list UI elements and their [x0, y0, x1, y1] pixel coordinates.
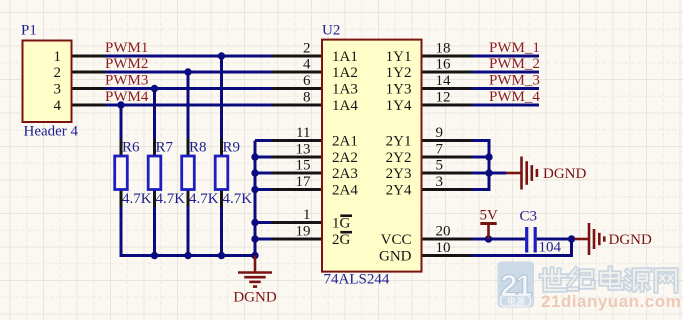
- svg-text:16: 16: [436, 56, 452, 72]
- svg-text:Header 4: Header 4: [24, 124, 79, 140]
- svg-text:1G: 1G: [332, 216, 351, 232]
- svg-text:U2: U2: [322, 23, 340, 39]
- svg-text:PWM_3: PWM_3: [489, 73, 540, 89]
- svg-text:4.7K: 4.7K: [122, 191, 152, 207]
- svg-text:2Y4: 2Y4: [386, 183, 412, 199]
- svg-text:104: 104: [539, 240, 562, 256]
- svg-text:9: 9: [436, 125, 444, 141]
- svg-text:2A2: 2A2: [332, 150, 358, 166]
- svg-text:2A4: 2A4: [332, 183, 358, 199]
- svg-text:PWM2: PWM2: [105, 56, 148, 72]
- svg-text:13: 13: [296, 141, 311, 157]
- svg-text:17: 17: [296, 174, 312, 190]
- svg-text:1Y2: 1Y2: [386, 65, 412, 81]
- svg-text:2G: 2G: [332, 232, 351, 248]
- svg-text:2A3: 2A3: [332, 166, 358, 182]
- svg-text:15: 15: [296, 157, 311, 173]
- svg-text:DGND: DGND: [543, 166, 586, 182]
- svg-text:1A2: 1A2: [332, 65, 358, 81]
- svg-text:R9: R9: [223, 140, 241, 156]
- svg-text:20: 20: [436, 223, 451, 239]
- svg-text:1Y3: 1Y3: [386, 82, 412, 98]
- svg-text:P1: P1: [21, 23, 37, 39]
- svg-text:19: 19: [296, 223, 311, 239]
- svg-text:PWM3: PWM3: [105, 73, 148, 89]
- svg-text:1: 1: [303, 207, 311, 223]
- svg-text:14: 14: [436, 73, 452, 89]
- svg-text:18: 18: [436, 40, 451, 56]
- svg-text:PWM1: PWM1: [105, 40, 148, 56]
- svg-text:1Y4: 1Y4: [386, 98, 412, 114]
- svg-text:4: 4: [303, 56, 311, 72]
- svg-text:R6: R6: [122, 140, 140, 156]
- svg-text:R8: R8: [189, 140, 207, 156]
- svg-text:R7: R7: [156, 140, 174, 156]
- svg-text:10: 10: [436, 240, 451, 256]
- svg-text:2Y1: 2Y1: [386, 134, 412, 150]
- svg-text:3: 3: [436, 174, 444, 190]
- svg-text:2A1: 2A1: [332, 134, 358, 150]
- svg-text:DGND: DGND: [609, 232, 652, 248]
- svg-text:4.7K: 4.7K: [223, 191, 253, 207]
- svg-text:PWM_2: PWM_2: [489, 56, 540, 72]
- svg-text:PWM_1: PWM_1: [489, 40, 540, 56]
- svg-text:1A3: 1A3: [332, 82, 358, 98]
- svg-text:PWM4: PWM4: [105, 89, 149, 105]
- svg-text:电源: 电源: [507, 296, 525, 307]
- svg-text:C3: C3: [520, 209, 538, 225]
- svg-text:2: 2: [54, 65, 62, 81]
- svg-text:1Y1: 1Y1: [386, 49, 412, 65]
- svg-text:VCC: VCC: [381, 232, 412, 248]
- svg-text:2Y2: 2Y2: [386, 150, 412, 166]
- svg-text:2Y3: 2Y3: [386, 166, 412, 182]
- svg-text:74ALS244: 74ALS244: [324, 272, 390, 288]
- svg-text:2: 2: [303, 40, 311, 56]
- svg-text:11: 11: [296, 125, 310, 141]
- svg-text:5: 5: [436, 157, 444, 173]
- svg-text:5V: 5V: [480, 208, 499, 224]
- svg-text:1A4: 1A4: [332, 98, 358, 114]
- svg-text:7: 7: [436, 141, 444, 157]
- svg-text:1: 1: [54, 49, 62, 65]
- svg-text:8: 8: [303, 89, 311, 105]
- svg-text:DGND: DGND: [233, 290, 276, 306]
- svg-text:3: 3: [54, 82, 62, 98]
- svg-text:6: 6: [303, 73, 311, 89]
- svg-text:1A1: 1A1: [332, 49, 358, 65]
- svg-text:PWM_4: PWM_4: [489, 89, 540, 105]
- svg-text:21dianyuan.com: 21dianyuan.com: [541, 292, 681, 311]
- svg-text:GND: GND: [379, 249, 412, 265]
- svg-text:4.7K: 4.7K: [189, 191, 219, 207]
- svg-text:4: 4: [54, 98, 62, 114]
- svg-text:12: 12: [436, 89, 451, 105]
- svg-text:4.7K: 4.7K: [156, 191, 186, 207]
